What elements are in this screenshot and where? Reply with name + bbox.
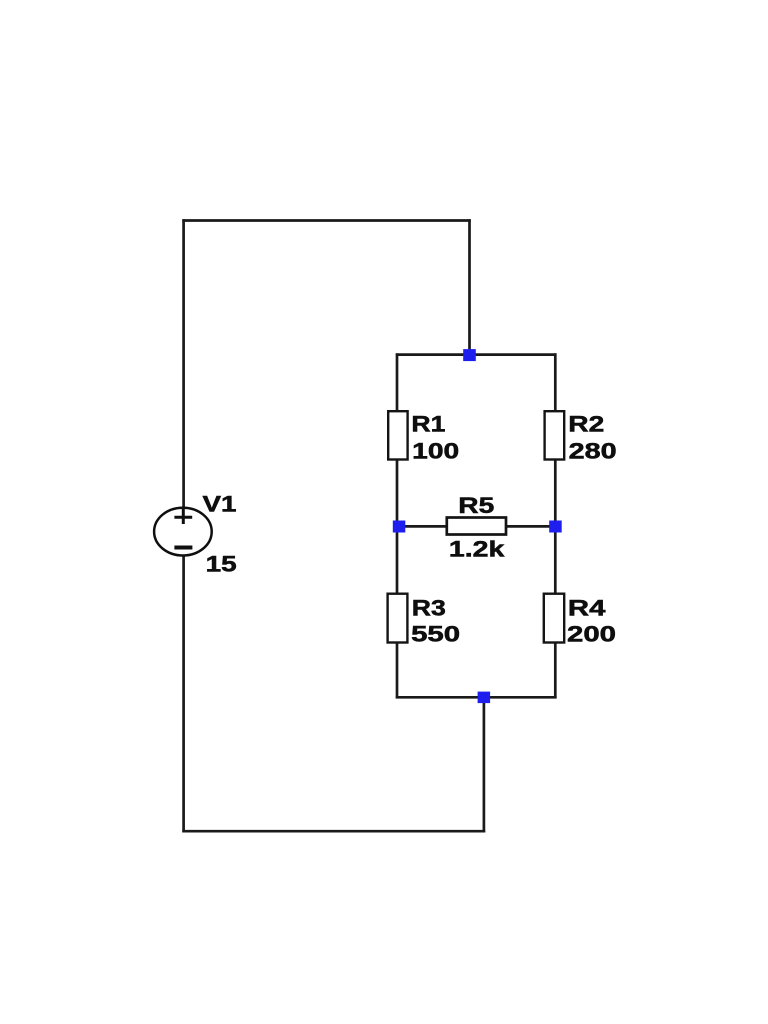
- resistor R2: [545, 411, 565, 459]
- resistor R4: [544, 594, 564, 643]
- resistor R1: [388, 411, 407, 459]
- svg-text:R1: R1: [411, 412, 445, 437]
- wire: bottom horizontal rail: [182, 830, 485, 833]
- wire: top horizontal rail: [182, 219, 471, 222]
- wire: bridge bottom rail: [396, 696, 557, 699]
- resistor R3: [388, 594, 408, 643]
- svg-text:550: 550: [411, 622, 460, 647]
- wire: right vertical drop from top rail to bridge top node: [468, 219, 471, 355]
- wire: horizontal from left mid node to R5: [397, 525, 448, 528]
- node: left mid junction: [393, 521, 406, 533]
- voltage source V1 symbol: [154, 508, 212, 556]
- svg-text:15: 15: [206, 552, 237, 577]
- wire: left vertical from top corner down to V1 plus terminal: [182, 219, 185, 508]
- wire: left bridge from R3 to bottom rail: [396, 642, 399, 699]
- svg-text:280: 280: [569, 439, 617, 464]
- wire: left bridge upper segment to R1: [396, 353, 399, 412]
- svg-text:100: 100: [412, 439, 459, 464]
- node: bridge top junction: [463, 349, 476, 361]
- svg-text:R5: R5: [458, 493, 494, 518]
- wire: bridge top rail: [396, 353, 557, 356]
- wire: right bridge from mid node to R4: [554, 526, 557, 595]
- svg-text:R2: R2: [568, 412, 604, 437]
- node: right mid junction: [549, 521, 562, 533]
- wire: vertical drop from bottom node: [483, 697, 486, 832]
- node: bottom junction: [478, 692, 491, 704]
- wire: right bridge upper segment to R2: [554, 353, 557, 412]
- wire: left bridge from R1 to mid node: [396, 459, 399, 528]
- svg-text:200: 200: [567, 622, 616, 647]
- svg-text:R3: R3: [412, 595, 446, 620]
- svg-text:R4: R4: [568, 595, 606, 620]
- resistor R5 (horizontal): [447, 518, 506, 535]
- svg-text:1.2k: 1.2k: [449, 537, 505, 562]
- wire: right bridge from R2 to mid node: [554, 459, 557, 528]
- wire: left vertical from V1 minus terminal to bottom rail: [182, 555, 185, 833]
- wire: horizontal from R5 to right mid node: [505, 525, 556, 528]
- wire: left bridge from mid node to R3: [396, 526, 399, 595]
- svg-text:V1: V1: [203, 491, 237, 516]
- wire: right bridge from R4 to bottom rail: [554, 642, 557, 699]
